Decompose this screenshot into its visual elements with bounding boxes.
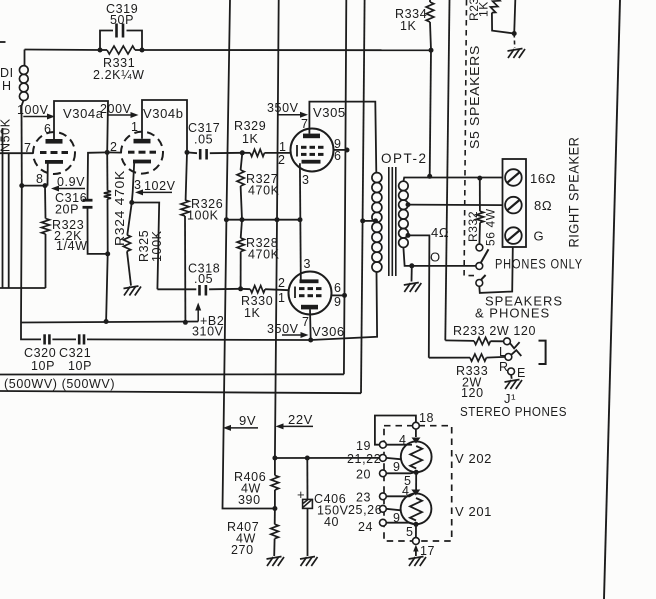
svg-text:C320: C320 xyxy=(24,346,56,360)
node bus/drop xyxy=(275,217,280,222)
svg-text:25,26: 25,26 xyxy=(348,503,382,517)
svg-text:R233 2W 120: R233 2W 120 xyxy=(453,324,536,338)
svg-text:1: 1 xyxy=(131,120,139,134)
capacitor C318 xyxy=(157,262,240,296)
label pin 1 xyxy=(131,120,139,134)
label J1 xyxy=(504,391,516,406)
svg-text:100K: 100K xyxy=(150,230,164,262)
wire 18 into V202 pin 4 xyxy=(415,429,417,437)
ground top right xyxy=(508,49,526,59)
svg-text:10P: 10P xyxy=(31,359,55,373)
label RIGHT SPEAKER xyxy=(567,137,582,248)
svg-text:.05: .05 xyxy=(194,272,213,286)
svg-text:1/4W: 1/4W xyxy=(56,239,88,253)
svg-text:50P: 50P xyxy=(110,13,134,27)
switch S5 contact from R332 xyxy=(476,244,483,251)
wire OPT center tap xyxy=(363,220,376,222)
ground at R407 xyxy=(267,557,285,567)
wire from top edge to ground node xyxy=(514,0,515,34)
svg-text:S5 SPEAKERS: S5 SPEAKERS xyxy=(467,45,482,149)
wire 24 to V201 pin 5 xyxy=(386,523,413,524)
label 8 ohm xyxy=(534,198,552,213)
resistor R328 xyxy=(237,220,280,289)
svg-text:8: 8 xyxy=(36,172,44,186)
wire V304b grid (pin 2) xyxy=(107,151,121,153)
terminal 25 26 xyxy=(348,503,386,517)
screw terminal 8 ohm xyxy=(505,197,522,214)
wire 23 to V201 pin 4 xyxy=(386,494,413,496)
svg-text:1K: 1K xyxy=(477,1,491,17)
label pins 2 1 of V306 xyxy=(278,276,286,305)
capacitor C320 xyxy=(24,334,56,373)
node bus/NFB xyxy=(224,217,229,222)
node R406 top xyxy=(272,456,277,461)
node 0.9V right xyxy=(43,183,48,188)
svg-text:20P: 20P xyxy=(55,203,79,217)
wire 18 jumper to 19 row xyxy=(375,416,416,445)
wire heater supply row xyxy=(275,457,383,459)
tube V304a xyxy=(33,106,104,174)
wire 4 ohm tap to R333 xyxy=(408,235,429,357)
jack contact E xyxy=(508,366,526,380)
wire V306 screen (pins 6 9) xyxy=(332,294,345,296)
wire switch to G terminal xyxy=(479,247,513,293)
wire B+ supply bus xyxy=(361,0,365,393)
label 350V lower with arrow xyxy=(267,322,309,338)
wire 17 to ground with arrow xyxy=(413,545,418,556)
terminal 20 xyxy=(356,468,386,482)
svg-text:350V: 350V xyxy=(267,322,299,336)
node V202 pin 5 xyxy=(414,470,419,475)
node V305 screen xyxy=(345,148,350,153)
svg-text:22V: 22V xyxy=(288,412,313,427)
wire left riser to +B2 row xyxy=(21,186,41,340)
wire NFB bus (top to R406 junction) xyxy=(223,0,275,509)
node 8 ohm tap xyxy=(406,202,411,207)
inductor L (choke, cut at left edge) xyxy=(0,42,28,106)
wire caps row to V306 plate node xyxy=(87,338,311,341)
tube V305 xyxy=(291,105,346,172)
wire V304a cathode (pin 8) xyxy=(47,164,49,186)
node OPT center tap xyxy=(373,218,378,223)
svg-text:9: 9 xyxy=(393,460,401,474)
label 100V with arrow xyxy=(17,103,55,120)
svg-text:V304b: V304b xyxy=(143,106,184,121)
svg-text:3: 3 xyxy=(304,257,312,271)
svg-text:+: + xyxy=(297,487,305,502)
resistor R331 xyxy=(93,46,145,82)
label +B2 310V with up arrow xyxy=(192,303,224,339)
wire 19 to V202 pin 4 xyxy=(386,444,412,446)
wire V304a plate (pin 6) to V304b grid xyxy=(54,101,108,152)
label pins 6 9 of V306 xyxy=(334,281,342,309)
label 350V upper with arrow xyxy=(267,101,308,118)
wire choke down to 0.9V node xyxy=(21,106,23,186)
tube V306 xyxy=(289,272,345,340)
wire V304b cathode (pin 3) xyxy=(132,163,134,203)
capacitor C319 xyxy=(100,2,142,50)
node C406 top xyxy=(305,456,310,461)
node bus/cathodes V305 V306 xyxy=(298,217,303,222)
label OPT-2 xyxy=(381,151,428,166)
svg-text:6: 6 xyxy=(334,281,342,295)
switch S5 dashed actuator line xyxy=(464,0,477,276)
label pin 2 xyxy=(110,140,118,154)
svg-text:0.9V: 0.9V xyxy=(57,175,85,189)
wire screen supply bus xyxy=(344,0,346,374)
capacitor C321 xyxy=(59,334,92,373)
svg-text:RIGHT SPEAKER: RIGHT SPEAKER xyxy=(567,137,582,248)
ground at heater center tap xyxy=(409,557,427,567)
terminal 19 xyxy=(356,439,386,453)
wire left edge bus B xyxy=(8,153,10,288)
node center tap to B+ bus xyxy=(360,218,365,223)
node V201 pin 5 xyxy=(414,522,419,527)
svg-text:470K: 470K xyxy=(248,184,280,198)
svg-text:V 202: V 202 xyxy=(455,451,492,466)
node +B2/R326 xyxy=(183,320,188,325)
wire 0.9V node xyxy=(22,185,48,187)
terminal strip block xyxy=(503,159,527,247)
node 4 ohm tap xyxy=(406,233,411,238)
svg-text:102V: 102V xyxy=(144,179,176,193)
svg-text:2: 2 xyxy=(278,153,286,167)
svg-text:DI: DI xyxy=(0,66,14,80)
wire cathode bus xyxy=(226,219,300,221)
label pins 1 2 of V305 xyxy=(278,140,287,167)
node +B2/R324 xyxy=(104,319,109,324)
svg-text:19: 19 xyxy=(356,439,371,453)
wire V306 plate (pin 7) to OPT primary bottom xyxy=(309,309,312,340)
wire 25 26 to V201 pin 9 xyxy=(386,509,401,511)
svg-text:1K: 1K xyxy=(244,306,261,320)
wire V305/V306 cathodes xyxy=(299,163,302,279)
node V304a plate / V304b grid xyxy=(105,150,110,155)
svg-text:8Ω: 8Ω xyxy=(534,198,552,213)
svg-text:1K: 1K xyxy=(400,19,417,33)
label 102V with arrow xyxy=(135,179,176,195)
node 0.9V left xyxy=(19,183,24,188)
heater dashed box xyxy=(384,426,452,541)
label pin 6 xyxy=(44,122,52,136)
wire 8 ohm line xyxy=(408,204,503,207)
wire 0 tap to ground xyxy=(411,266,413,282)
resistor R406 xyxy=(234,458,279,509)
ground at C406 xyxy=(300,557,318,567)
node at C319 right xyxy=(140,48,145,53)
node R406/R407/9V xyxy=(272,506,277,511)
screw terminal G xyxy=(505,227,522,244)
svg-text:G: G xyxy=(534,229,545,244)
transformer OPT-2 secondary xyxy=(399,181,408,247)
svg-text:3: 3 xyxy=(302,173,310,187)
label pin 8 xyxy=(36,172,44,186)
label 22V with arrow xyxy=(276,412,314,429)
transformer OPT-2 primary xyxy=(372,173,382,272)
capacitor C317 xyxy=(187,121,242,160)
resistor R233 xyxy=(445,324,536,345)
svg-text:2.2K¼W: 2.2K¼W xyxy=(93,68,145,82)
svg-text:9V: 9V xyxy=(239,413,256,428)
resistor R325 xyxy=(123,203,164,286)
svg-text:20: 20 xyxy=(356,468,371,482)
node C318/R328/R330 xyxy=(238,286,243,291)
svg-text:(500WV) (500WV): (500WV) (500WV) xyxy=(4,377,115,391)
label pin 3 of V305 xyxy=(302,173,310,187)
jack contact L xyxy=(499,338,510,359)
svg-text:4: 4 xyxy=(399,433,407,447)
svg-text:120: 120 xyxy=(461,386,484,400)
wire plate node up to OPT primary bottom xyxy=(311,272,377,340)
label STEREO PHONES xyxy=(460,404,567,419)
node bus/R327 xyxy=(240,217,245,222)
svg-text:470K: 470K xyxy=(248,248,280,262)
node V304b cathode xyxy=(129,200,134,205)
svg-text:STEREO PHONES: STEREO PHONES xyxy=(460,404,567,419)
wire NFB drop from 16ohm line xyxy=(430,50,431,176)
wire E to ground xyxy=(510,375,513,379)
terminal 24 xyxy=(358,519,386,534)
jack blade L xyxy=(510,342,520,348)
wire caps row middle xyxy=(52,338,76,340)
svg-text:OPT-2: OPT-2 xyxy=(381,151,428,166)
wire V201 pin 5 to terminal 17 xyxy=(415,524,417,537)
terminal 18 xyxy=(413,411,435,429)
capacitor C316 xyxy=(55,152,108,254)
switch S5 blade (speakers) xyxy=(481,275,486,280)
svg-text:100V: 100V xyxy=(17,103,49,117)
wire main NFB bus segment from choke xyxy=(25,49,101,52)
label (500WV) (500WV) xyxy=(4,377,115,391)
node V306 plate xyxy=(308,338,313,343)
resistor R407 xyxy=(227,509,278,558)
label 0 tap xyxy=(430,250,441,265)
resistor R334 xyxy=(395,0,434,50)
svg-text:16Ω: 16Ω xyxy=(530,171,556,186)
node 16ohm/NFB takeoff xyxy=(427,174,432,179)
wire V304a grid (pin 7) to left edge xyxy=(0,152,33,154)
svg-text:V306: V306 xyxy=(312,324,345,339)
switch S5 blade (phones only) xyxy=(481,249,489,262)
transformer OPT-2 core xyxy=(389,167,396,276)
ground at jack E xyxy=(505,380,523,390)
node 0 tap ground branch xyxy=(409,263,414,268)
wire V304b plate (pin 1) to C317 xyxy=(142,100,187,152)
svg-text:310V: 310V xyxy=(192,325,224,339)
wire V304b cathode to C318 xyxy=(132,203,159,290)
svg-text:390: 390 xyxy=(238,493,261,507)
svg-text:R332: R332 xyxy=(466,211,480,242)
wire 20 to V202 pin 5 xyxy=(386,472,414,475)
screw terminal 16 ohm xyxy=(505,169,522,186)
wire V305 plate (pin 7) to OPT primary top xyxy=(309,102,376,173)
svg-text:R329: R329 xyxy=(234,119,266,133)
svg-text:E: E xyxy=(517,366,526,380)
node 16ohm/R332 xyxy=(477,176,482,181)
svg-text:3: 3 xyxy=(134,178,142,192)
svg-text:R324 470K: R324 470K xyxy=(113,170,127,246)
svg-text:R325: R325 xyxy=(137,230,151,262)
svg-text:2: 2 xyxy=(278,276,286,290)
svg-text:PHONES ONLY: PHONES ONLY xyxy=(495,257,583,272)
resistor R324 xyxy=(104,152,127,321)
wire 16 ohm line xyxy=(403,178,502,182)
switch S5 contact common 0 xyxy=(476,263,483,270)
terminal 21 22 xyxy=(347,452,386,466)
ground at OPT secondary xyxy=(404,283,422,293)
resistor R330 xyxy=(241,286,289,320)
ground at R325 xyxy=(124,286,142,296)
label pin 7 xyxy=(24,141,32,155)
wire right page border xyxy=(604,0,620,599)
wire R323 to left edge xyxy=(0,287,46,289)
node at C319 left xyxy=(98,48,103,53)
svg-text:350V: 350V xyxy=(267,101,299,115)
node C316/R324 xyxy=(105,251,110,256)
jack body xyxy=(539,341,546,364)
label pin 7 of V305 xyxy=(301,117,309,131)
label 16 ohm xyxy=(530,171,556,186)
wire main NFB bus to R334 xyxy=(142,49,431,51)
svg-text:1: 1 xyxy=(279,140,287,154)
svg-text:200V: 200V xyxy=(100,102,132,116)
wire +B2 row xyxy=(21,322,198,323)
node V304b plate / C317 / R326 xyxy=(185,150,190,155)
svg-text:10P: 10P xyxy=(68,359,92,373)
svg-text:40: 40 xyxy=(324,515,339,529)
svg-text:4: 4 xyxy=(402,484,410,498)
label 9V with arrow xyxy=(223,413,258,431)
wire 21 22 to V202 pin 9 xyxy=(386,458,401,459)
svg-text:1K: 1K xyxy=(242,132,259,146)
wire left cathode drop bus xyxy=(275,0,279,458)
svg-text:56 4W: 56 4W xyxy=(484,208,498,246)
jack contact R xyxy=(499,354,512,375)
svg-text:270: 270 xyxy=(231,543,254,557)
label pin 3 of V304b xyxy=(134,178,142,192)
label pin 3 of V306 xyxy=(304,257,312,271)
svg-text:18: 18 xyxy=(419,411,434,425)
svg-text:C321: C321 xyxy=(59,346,91,360)
resistor R326 xyxy=(181,152,223,322)
svg-text:6: 6 xyxy=(334,149,342,163)
resistor R327 xyxy=(237,153,280,220)
svg-text:O: O xyxy=(430,250,441,265)
svg-text:1: 1 xyxy=(278,291,286,305)
label SPEAKERS & PHONES xyxy=(475,294,563,321)
wire phones feed (left channel) xyxy=(445,0,449,340)
label 0.9V with arrow xyxy=(51,175,85,192)
wire heater link V202-V201 xyxy=(415,472,417,489)
svg-text:100K: 100K xyxy=(187,209,219,223)
label 4 ohm xyxy=(431,225,449,240)
svg-text:7: 7 xyxy=(301,117,309,131)
svg-text:V304a: V304a xyxy=(63,106,104,121)
resistor R332 xyxy=(466,178,498,246)
label pins 9 6 of V305 xyxy=(334,137,342,163)
svg-text:.05: .05 xyxy=(194,133,213,147)
wire 0 tap line xyxy=(403,247,476,266)
terminal 23 xyxy=(356,491,386,505)
node NFB top at R334 xyxy=(429,48,434,53)
svg-text:5: 5 xyxy=(406,525,414,539)
node V306 screen xyxy=(342,293,347,298)
svg-text:9: 9 xyxy=(334,295,342,309)
svg-text:2: 2 xyxy=(110,140,118,154)
tube V202 heater xyxy=(393,433,492,488)
svg-text:7: 7 xyxy=(302,315,310,329)
label 200V with arrow xyxy=(100,102,139,118)
svg-text:24: 24 xyxy=(358,520,373,534)
label N50K (volume pot, cut at edge) xyxy=(0,118,13,152)
terminal 17 xyxy=(413,538,436,558)
label pin 7 of V306 xyxy=(302,315,310,329)
resistor R323 xyxy=(42,186,88,288)
wire long B+ bottom bus xyxy=(0,391,361,393)
resistor R333 xyxy=(429,354,505,400)
jack blade R xyxy=(511,350,522,356)
svg-text:& PHONES: & PHONES xyxy=(475,306,550,321)
label PHONES ONLY xyxy=(495,257,583,272)
svg-text:7: 7 xyxy=(24,141,32,155)
svg-text:6: 6 xyxy=(44,122,52,136)
wire dashed to ground xyxy=(513,34,516,49)
svg-text:V 201: V 201 xyxy=(455,504,492,519)
svg-text:21,22: 21,22 xyxy=(347,452,381,466)
node top right xyxy=(512,31,517,36)
svg-text:H: H xyxy=(2,79,12,93)
resistor R235 (cut at top) xyxy=(467,0,514,34)
label S5 SPEAKERS xyxy=(467,45,482,149)
wire left edge bus A xyxy=(2,128,4,288)
switch S5 contact speakers xyxy=(476,280,483,287)
tube V304b xyxy=(121,106,184,174)
wire long bus to screen line xyxy=(0,373,344,375)
node C317/R329/R327 xyxy=(240,150,245,155)
capacitor C406 (electrolytic) xyxy=(297,458,349,556)
wire V305 screen (pins 9 6) xyxy=(334,149,348,151)
resistor R329 xyxy=(234,119,291,157)
svg-text:V305: V305 xyxy=(313,105,346,120)
tube V201 heater xyxy=(393,484,492,539)
label G xyxy=(534,229,545,244)
